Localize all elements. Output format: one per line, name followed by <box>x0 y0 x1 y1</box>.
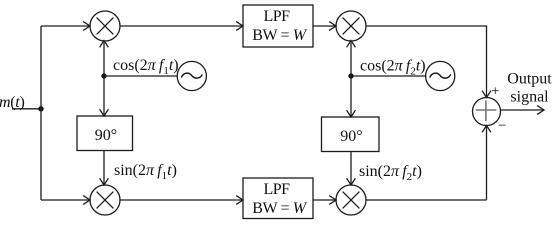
oscillator right circle <box>426 61 455 90</box>
svg-text:cos(2π f2t): cos(2π f2t) <box>360 58 426 78</box>
wire right 90 box to bottom-right multiplier <box>350 152 352 185</box>
arrowhead into bottom-left multiplier top <box>100 178 109 185</box>
svg-text:BW = W: BW = W <box>252 200 308 217</box>
arrowhead into top-left multiplier bottom <box>100 41 109 48</box>
wire m(t) input horizontal <box>12 108 41 110</box>
wire to top-left multiplier <box>41 25 89 27</box>
wire bottom LPF to bottom-right multiplier <box>313 199 335 201</box>
wire left carrier vertical down to 90 box <box>103 76 105 115</box>
wire left carrier to oscillator <box>104 75 177 77</box>
arrowhead into top-right multiplier bottom <box>347 41 356 48</box>
arrowhead into bottom LPF <box>236 196 243 205</box>
svg-text:sin(2π f2t): sin(2π f2t) <box>359 163 422 183</box>
multiplier bottom-right X <box>343 192 360 209</box>
wire top LPF to top-right multiplier <box>313 25 335 27</box>
arrowhead into top-left multiplier <box>83 22 90 31</box>
multiplier top-left X <box>97 18 114 35</box>
arrowhead into summer bottom <box>482 126 491 133</box>
wire input vertical trunk <box>40 26 42 200</box>
arrowhead into bottom-right multiplier top <box>347 178 356 185</box>
filter LPF bottom box <box>243 178 313 219</box>
node left carrier junction <box>101 73 106 78</box>
svg-text:LPF: LPF <box>263 8 290 25</box>
arrowhead into top LPF <box>236 22 243 31</box>
arrowhead output <box>537 106 544 115</box>
multiplier bottom-right circle <box>336 185 366 215</box>
oscillator left circle <box>177 61 206 90</box>
wire to bottom-left multiplier horizontal <box>41 199 89 201</box>
summer plus cross <box>476 100 497 121</box>
node right carrier junction <box>348 73 353 78</box>
arrowhead into top-right multiplier <box>329 22 336 31</box>
arrowhead into right 90 box <box>347 110 356 117</box>
svg-text:m(t): m(t) <box>0 94 24 111</box>
wire right carrier vertical up to multiplier <box>350 43 352 77</box>
svg-text:+: + <box>491 84 499 100</box>
multiplier bottom-left X <box>97 192 114 209</box>
node input junction dot <box>38 106 43 111</box>
arrowhead into summer top <box>482 91 491 98</box>
wire left 90 box to bottom-left multiplier <box>103 151 105 185</box>
oscillator left sine <box>181 73 202 78</box>
wire right carrier to oscillator <box>351 75 426 77</box>
svg-text:LPF: LPF <box>263 181 290 198</box>
multiplier top-right X <box>343 18 360 35</box>
svg-text:signal: signal <box>510 89 549 106</box>
wire left carrier vertical up to multiplier <box>103 43 105 77</box>
svg-text:sin(2π f1t): sin(2π f1t) <box>114 162 177 182</box>
svg-text:−: − <box>498 118 506 134</box>
wire output arrow <box>501 109 544 111</box>
multiplier bottom-left circle <box>90 185 120 215</box>
summer circle <box>473 98 501 126</box>
wire top-left multiplier to LPF <box>120 25 242 27</box>
wire bottom-left multiplier to bottom LPF <box>120 199 242 201</box>
multiplier top-left circle <box>90 11 120 41</box>
svg-text:Output: Output <box>507 71 552 88</box>
wire right carrier vertical down to 90 box <box>350 76 352 116</box>
arrowhead into left 90 box <box>100 109 109 116</box>
multiplier top-right circle <box>336 11 366 41</box>
arrowhead into bottom-right multiplier <box>329 196 336 205</box>
arrowhead into bottom-left multiplier <box>83 196 90 205</box>
svg-text:90°: 90° <box>340 128 362 145</box>
svg-text:BW = W: BW = W <box>252 27 308 44</box>
svg-text:90°: 90° <box>95 127 117 144</box>
filter LPF top box <box>243 5 313 47</box>
wire summer bottom vertical <box>486 127 488 200</box>
oscillator right sine <box>430 73 451 78</box>
phase shifter left 90 box <box>77 116 133 151</box>
phase shifter right 90 box <box>322 117 380 152</box>
svg-text:cos(2π f1t): cos(2π f1t) <box>113 57 179 77</box>
wire top-right multiplier to summer (corner) <box>366 26 487 97</box>
wire bottom-right multiplier to summer corner <box>366 199 487 201</box>
